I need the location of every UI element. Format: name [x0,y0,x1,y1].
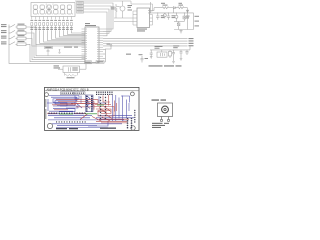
crystal Y2 [157,50,167,57]
net label 60Hz [126,54,131,55]
IC U1 MM5314 body [85,27,99,63]
PCB mid pad row [49,113,86,114]
capacitor C3 plus box [183,13,186,22]
diode D1 [173,7,177,9]
wire label smudge [64,47,78,48]
PCB green traces [59,105,104,114]
left wire to IC2 [172,8,174,13]
inline label boxes on ground wire [85,61,106,64]
resistor R7 [65,73,78,77]
caption [149,65,182,66]
digit 2 of display DS1 [40,5,44,14]
switch S2 with resistor [9,30,85,57]
capacitor C8 [172,50,175,64]
segment resistors R11-R20 [31,23,73,30]
right bus vertical [188,12,194,29]
transistor Q11 [163,13,166,19]
PCB side text [45,99,46,119]
capacitor C7 [150,50,153,59]
resistor R1 zigzag [154,7,173,9]
PCB top component cluster [62,92,113,95]
colon wires [114,18,133,22]
resistor R12 [168,50,171,58]
IC U1 label [85,23,96,26]
capacitor C [156,13,159,20]
PCB IC socket U1 pads [86,95,94,112]
PCB top footprint outlines [61,92,86,95]
display pin stubs [32,17,72,20]
IC U1 pins [82,29,104,59]
digit 5 of display DS1 [60,5,64,14]
capacitor C [167,13,170,20]
capacitor C9 [180,50,183,61]
wire to IC pin bus [103,49,105,62]
transformer T1 [158,103,173,117]
crystal Y1 detail box [58,64,86,73]
switch common bus wire [9,25,85,64]
switch S3 with resistor [9,36,85,60]
oscillator rail [150,46,190,50]
test point TP1 [105,44,112,49]
colon lamp [46,3,54,6]
PCB blue traces [47,95,134,128]
PCB center pad grid [100,97,106,119]
long wires to set labels [103,39,188,46]
capacitor C4 with label [45,46,53,56]
wires display to IC right pins [75,1,131,36]
PSU lower rail segment [174,21,184,23]
display connector labels [77,2,84,13]
digit 1 of display DS1 [33,5,37,14]
svg-text:AMP/5314 PCB: AMP/5314 PCB [47,87,66,91]
mounting hole H3 [47,123,52,128]
capacitor C10 [141,56,144,63]
mounting hole H2 [131,92,135,96]
svg-text:REV B: REV B [81,87,89,91]
PCB lower pad row [56,121,86,122]
capacitor C11 [185,50,188,55]
digit 6 of display DS1 [67,5,71,14]
display assembly DS1 box [31,3,75,17]
transformer labels [152,99,170,128]
PCB board outline [45,87,140,130]
PCB bottom text [56,128,116,130]
digit 4 of display DS1 [54,5,58,14]
capacitor C5 box [177,22,180,30]
ground rail PSU [174,30,194,33]
PSU input wires [148,2,194,13]
PCB red traces [47,95,129,123]
mounting hole H4 [131,126,135,130]
transistor Q9 [116,1,125,18]
IC U2 label [137,29,147,32]
resistor R10 zigzag [115,4,117,18]
resistor R2 zigzag [177,7,187,9]
transistor Q10 [175,13,178,22]
switch S1 with resistor [9,24,85,55]
ground stub near node [58,49,60,53]
IC U2 pins [131,1,153,25]
diode D2 [186,8,188,13]
switch S4 with resistor [9,42,85,62]
PCB right connector pads [127,110,136,129]
svg-text:60HZ ETC: 60HZ ETC [66,87,79,91]
digit 3 of display DS1 [47,5,51,14]
driver to IC1 wires [32,30,85,46]
IC U2 MM5369 body [137,8,150,28]
colon cell star [47,6,51,14]
mounting hole H1 [45,93,49,97]
